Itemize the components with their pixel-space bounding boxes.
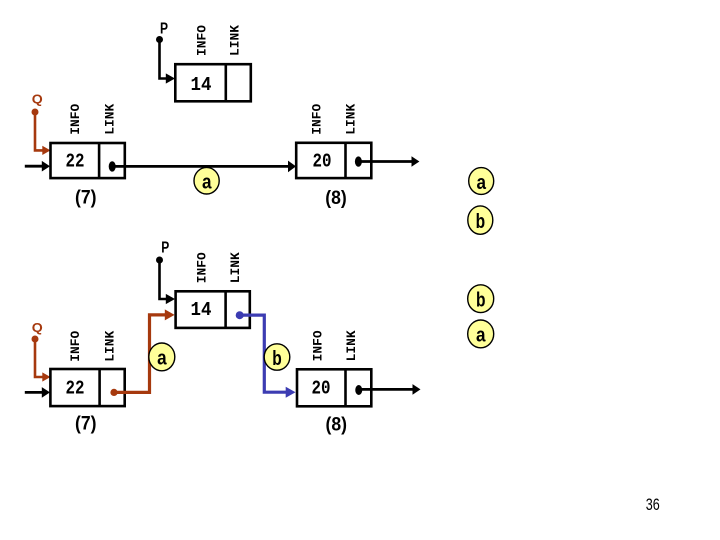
address label (7) (top) <box>75 188 97 209</box>
link dot in node 20 (top) <box>355 156 362 166</box>
field label INFO (bottom node 22) <box>68 331 83 362</box>
legend ellipse a (top right) <box>469 168 494 195</box>
value label 20 (top) <box>313 151 332 173</box>
svg-text:a: a <box>477 172 487 194</box>
address label (8) (bottom) <box>326 415 348 436</box>
value label 14 (bottom) <box>191 299 212 321</box>
node 14 box (bottom) <box>176 291 250 328</box>
field label LINK (top node 20) <box>343 104 358 135</box>
svg-text:INFO: INFO <box>311 330 326 361</box>
svg-text:a: a <box>157 348 167 370</box>
node 20 box (top) <box>296 143 371 178</box>
address label (7) (bottom) <box>75 414 97 435</box>
page number 36 <box>646 495 660 514</box>
wire: arrow from node 22 link to node 20 (top) <box>112 161 296 173</box>
svg-text:LINK: LINK <box>228 25 243 56</box>
svg-text:LINK: LINK <box>103 331 118 362</box>
svg-text:LINK: LINK <box>343 104 358 135</box>
svg-text:a: a <box>476 325 486 347</box>
value label 20 (bottom) <box>312 378 331 400</box>
svg-text:(8): (8) <box>326 415 348 436</box>
svg-text:P: P <box>161 239 169 256</box>
svg-text:INFO: INFO <box>195 252 210 283</box>
svg-text:INFO: INFO <box>194 25 209 56</box>
wire: blue arrow node 14 link to node 20 (bottom) <box>240 315 296 398</box>
svg-text:36: 36 <box>646 495 660 514</box>
pointer Q dot (top) <box>32 109 39 116</box>
svg-text:b: b <box>272 348 282 370</box>
svg-text:20: 20 <box>313 151 332 173</box>
field label LINK (bottom node 22) <box>103 331 118 362</box>
callout ellipse b (bottom, on blue wire) <box>264 344 290 370</box>
legend ellipse b (top right) <box>468 206 493 234</box>
value label 22 (top) <box>66 151 85 173</box>
wire: outgoing arrow from node 20 (top) <box>358 156 419 167</box>
svg-text:Q: Q <box>32 321 43 335</box>
node 22 box (top) <box>51 143 125 178</box>
pointer label P (top) <box>160 21 168 38</box>
svg-text:LINK: LINK <box>103 104 118 135</box>
svg-text:INFO: INFO <box>310 104 325 135</box>
pointer P dot (top) <box>156 36 163 43</box>
svg-text:14: 14 <box>191 74 212 96</box>
link dot in node 14 (bottom, blue) <box>236 311 244 319</box>
wire: incoming list arrow into node 22 (top) <box>25 161 50 172</box>
pointer label Q (bottom) <box>32 321 43 335</box>
pointer Q dot (bottom) <box>32 336 39 343</box>
svg-text:P: P <box>160 21 168 38</box>
node 20 box (bottom) <box>297 369 371 406</box>
link dot in node 20 (bottom) <box>355 385 362 395</box>
field label LINK (bottom node 20) <box>344 330 359 361</box>
wire: outgoing arrow from node 20 (bottom) <box>359 384 421 395</box>
svg-text:LINK: LINK <box>344 330 359 361</box>
legend ellipse b (bottom right) <box>468 285 494 313</box>
field label LINK (bottom node 14) <box>228 252 243 283</box>
svg-text:b: b <box>476 211 486 233</box>
svg-text:(8): (8) <box>325 188 347 209</box>
field label LINK (top node 14) <box>228 25 243 56</box>
link dot in node 22 (bottom, brown) <box>110 389 117 396</box>
field label INFO (top node 22) <box>68 104 83 135</box>
callout ellipse a (bottom, on brown wire) <box>149 343 175 371</box>
svg-text:14: 14 <box>191 299 212 321</box>
svg-text:INFO: INFO <box>68 104 83 135</box>
field label INFO (bottom node 20) <box>311 330 326 361</box>
wire: P pointer to node 14 (bottom) <box>160 260 176 304</box>
value label 22 (bottom) <box>66 378 85 400</box>
svg-text:20: 20 <box>312 378 331 400</box>
address label (8) (top) <box>325 188 347 209</box>
svg-text:Q: Q <box>32 93 43 107</box>
wire: P pointer to node 14 (top) <box>160 40 176 84</box>
svg-text:22: 22 <box>66 151 85 173</box>
wire: Q pointer to node 22 (bottom) <box>35 339 51 382</box>
svg-text:22: 22 <box>66 378 85 400</box>
wire: Q pointer to node 22 (top) <box>35 112 51 155</box>
link dot in node 22 (top) <box>109 161 116 171</box>
svg-text:a: a <box>202 172 212 194</box>
node 22 box (bottom) <box>50 369 124 406</box>
callout ellipse a (top, on arrow) <box>194 167 219 194</box>
svg-text:(7): (7) <box>75 414 97 435</box>
wire: brown arrow node 22 link to node 14 (bottom) <box>114 309 175 392</box>
node 14 box (top) <box>175 64 251 101</box>
legend ellipse a (bottom right) <box>468 320 494 348</box>
field label INFO (bottom node 14) <box>195 252 210 283</box>
svg-text:(7): (7) <box>75 188 97 209</box>
value label 14 (top) <box>191 74 212 96</box>
pointer P dot (bottom) <box>156 257 163 264</box>
field label INFO (top node 20) <box>310 104 325 135</box>
svg-text:INFO: INFO <box>68 331 83 362</box>
pointer label P (bottom) <box>161 239 169 256</box>
wire: incoming list arrow into node 22 (bottom) <box>25 387 50 398</box>
svg-text:LINK: LINK <box>228 252 243 283</box>
field label INFO (top node 14) <box>194 25 209 56</box>
pointer label Q (top) <box>32 93 43 107</box>
field label LINK (top node 22) <box>103 104 118 135</box>
svg-text:b: b <box>476 290 486 312</box>
